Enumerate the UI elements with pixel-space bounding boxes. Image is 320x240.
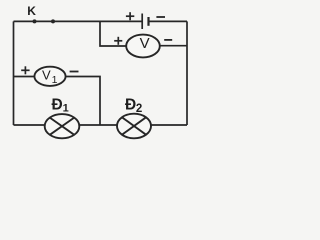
lamp D1 (circle with X) xyxy=(45,114,80,138)
battery cell: long plate (+) xyxy=(141,14,143,30)
switch K contact dots xyxy=(33,19,37,23)
wire bottom left segment xyxy=(14,124,45,126)
battery cell: short plate (-) xyxy=(147,17,149,26)
svg-text:2: 2 xyxy=(136,103,142,115)
voltmeter U: V (parallel with battery) xyxy=(126,35,160,58)
wire top left segment (left corner to battery + plate) xyxy=(14,20,143,22)
wire bottom right segment xyxy=(151,124,187,126)
svg-text:V: V xyxy=(140,35,150,52)
voltmeter V1 - sign xyxy=(70,71,79,73)
voltmeter V + sign xyxy=(114,37,122,45)
svg-text:1: 1 xyxy=(52,74,58,86)
wire left edge xyxy=(13,21,15,125)
wire bottom middle segment (between lamps, junction node) xyxy=(79,124,117,126)
wire voltmeter V1 branch left xyxy=(14,76,35,78)
wire top right segment (battery - plate to top-right corner) xyxy=(149,20,188,22)
voltmeter V1 + sign xyxy=(21,66,29,74)
wire right edge xyxy=(186,21,188,125)
wire voltmeter V branch left (drop from top wire) xyxy=(100,21,126,46)
wire voltmeter V1 branch right (down to junction between lamps) xyxy=(66,77,100,126)
voltmeter U1: V1 (parallel with lamp D1) xyxy=(34,67,65,86)
svg-text:Đ: Đ xyxy=(52,96,63,113)
voltmeter V - sign xyxy=(164,39,172,41)
svg-text:K: K xyxy=(27,4,36,18)
battery + sign xyxy=(126,12,134,20)
lamp D2 (circle with X) xyxy=(117,114,151,139)
svg-text:Đ: Đ xyxy=(125,96,136,113)
wire voltmeter V branch right xyxy=(160,45,187,47)
svg-text:1: 1 xyxy=(63,103,69,115)
svg-text:V: V xyxy=(42,67,51,82)
battery - sign xyxy=(156,16,165,18)
